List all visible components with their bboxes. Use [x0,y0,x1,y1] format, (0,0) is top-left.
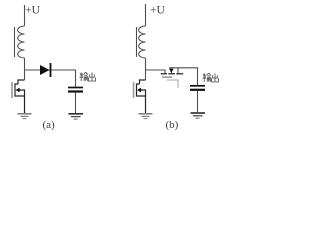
svg-text:(a): (a) [43,119,56,131]
svg-text:+U: +U [150,4,165,16]
svg-text:(b): (b) [166,119,179,131]
svg-text:+U: +U [25,4,40,16]
